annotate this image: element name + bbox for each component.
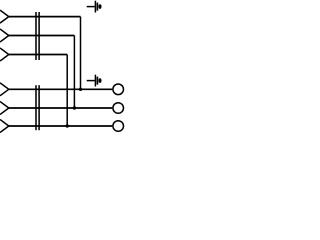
connector J5 xyxy=(0,102,9,115)
ground GND2 bar 3 nub xyxy=(99,78,102,83)
connector J1 xyxy=(0,10,9,23)
ground GND1 lead xyxy=(87,6,95,8)
ground GND2 bar 2 xyxy=(96,77,98,85)
wire net2 vertical drop xyxy=(73,36,75,109)
connector J2 xyxy=(0,29,9,42)
junction node net3/net6 xyxy=(66,124,69,127)
bus line bottom left xyxy=(35,85,37,130)
wire net1 vertical drop xyxy=(80,17,82,90)
ground GND1 bar 3 nub xyxy=(99,4,102,9)
bus line top left xyxy=(35,12,37,60)
wire net6 horizontal xyxy=(9,125,112,127)
ground GND2 lead xyxy=(87,80,95,82)
output port P3 xyxy=(113,121,124,132)
ground GND2 bar 1 xyxy=(94,75,96,87)
output port P2 xyxy=(113,103,124,114)
wire net4 horizontal xyxy=(9,88,112,90)
ground GND1 bar 2 xyxy=(96,3,98,11)
bus line bottom right xyxy=(38,85,40,130)
junction node net1/net4 xyxy=(79,88,82,91)
bus line top right xyxy=(38,12,40,60)
connector J6 xyxy=(0,120,9,133)
wire net3 horizontal xyxy=(9,54,67,56)
connector J3 xyxy=(0,48,9,61)
wire net5 horizontal xyxy=(9,107,112,109)
output port P1 xyxy=(113,84,124,95)
wire net1 horizontal xyxy=(9,16,81,18)
junction node net2/net5 xyxy=(73,106,76,109)
ground GND1 bar 1 xyxy=(94,1,96,13)
connector J4 xyxy=(0,83,9,96)
wire net3 vertical drop xyxy=(66,55,68,127)
wire net2 horizontal xyxy=(9,35,75,37)
